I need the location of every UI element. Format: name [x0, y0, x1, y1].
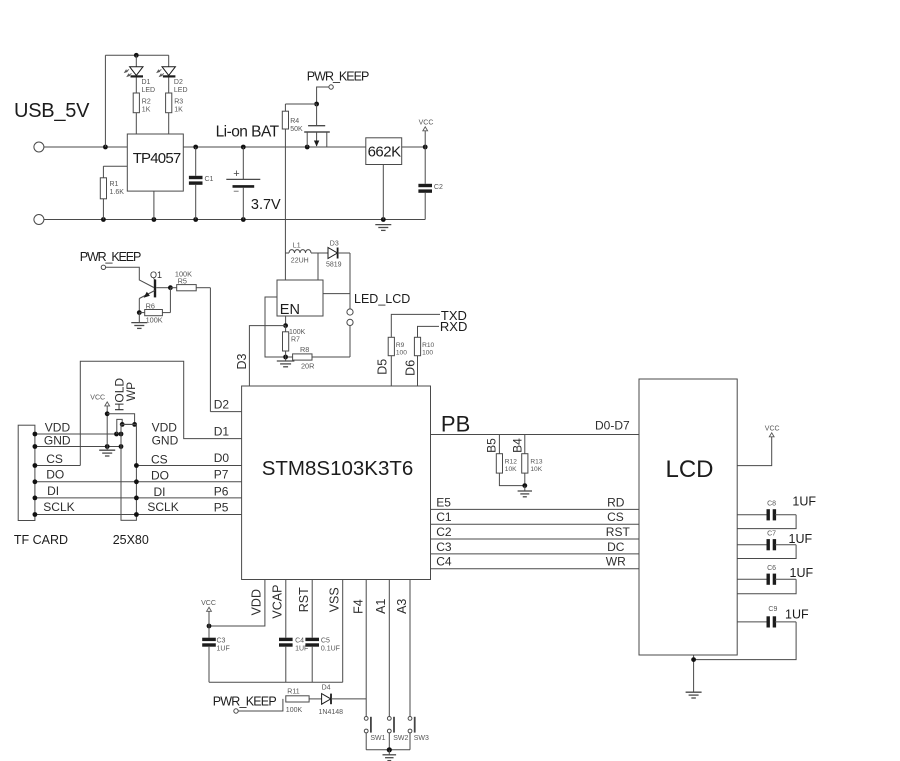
- power flag VCC (LCD): [737, 437, 772, 466]
- svg-text:RXD: RXD: [440, 319, 467, 334]
- svg-text:VCC: VCC: [419, 119, 434, 126]
- switch SW3: [408, 717, 412, 721]
- wire: [418, 326, 440, 337]
- svg-text:GND: GND: [44, 433, 71, 447]
- svg-text:10K: 10K: [505, 466, 517, 473]
- wire: [317, 253, 319, 280]
- wire WP-HOLD tie: [117, 419, 122, 434]
- svg-text:5819: 5819: [326, 262, 342, 269]
- node 25X80 CS: [134, 463, 139, 468]
- svg-text:R3: R3: [174, 99, 183, 106]
- svg-text:100: 100: [422, 350, 433, 357]
- wire: [417, 356, 419, 386]
- svg-text:PB: PB: [441, 412, 470, 437]
- svg-text:R5: R5: [178, 276, 187, 285]
- wire: [391, 314, 440, 337]
- resistor R12 10K: [498, 435, 500, 454]
- svg-text:R11: R11: [287, 689, 299, 696]
- capacitor C3 1UF: [208, 626, 210, 638]
- svg-text:D4: D4: [322, 684, 331, 691]
- svg-text:RD: RD: [607, 495, 625, 509]
- wire 662K GND pin: [382, 165, 384, 220]
- svg-text:100: 100: [396, 350, 407, 357]
- svg-text:TP4057: TP4057: [133, 150, 182, 167]
- wire A3 pin down to SW3: [409, 580, 411, 717]
- svg-text:D5: D5: [376, 359, 390, 375]
- svg-text:R10: R10: [422, 342, 434, 349]
- module LCD: [639, 379, 737, 655]
- svg-text:P5: P5: [214, 501, 229, 515]
- svg-text:D2: D2: [174, 79, 183, 86]
- capacitor C4 1UF: [279, 638, 293, 641]
- resistor R1 1.6K: [100, 178, 106, 199]
- wire: [402, 146, 426, 148]
- wire: [135, 113, 137, 134]
- svg-text:C3: C3: [217, 638, 226, 645]
- svg-text:662K: 662K: [368, 143, 402, 160]
- ground: [686, 691, 702, 693]
- svg-text:P7: P7: [214, 467, 229, 481]
- svg-text:1UF: 1UF: [790, 566, 814, 580]
- svg-text:SW3: SW3: [414, 735, 429, 742]
- IC U1 TP4057 charger: [127, 134, 183, 191]
- wire: [390, 356, 392, 386]
- terminal PWR_KEEP: [234, 709, 238, 713]
- svg-text:25X80: 25X80: [113, 533, 149, 547]
- wire EN bottom pin: [285, 316, 287, 326]
- svg-text:LED: LED: [142, 87, 156, 94]
- wire: [102, 199, 104, 220]
- switch SW1: [364, 717, 368, 721]
- connector J1 TF CARD: [18, 425, 35, 520]
- wire LCD gnd pin: [693, 655, 695, 692]
- wire VSS pin down: [342, 580, 344, 683]
- node 25X80 SCLK: [134, 512, 139, 517]
- wire: [44, 146, 127, 148]
- svg-text:WR: WR: [606, 555, 626, 569]
- resistor R4 50K: [284, 104, 286, 111]
- svg-text:3.7V: 3.7V: [251, 197, 281, 213]
- wire C3/DC row: [431, 553, 640, 555]
- wire VCAP pin down: [285, 580, 287, 638]
- wire boost vin into EN block: [284, 253, 286, 280]
- svg-text:C4: C4: [295, 638, 304, 645]
- terminal PWR_KEEP: [101, 265, 105, 269]
- wire: [103, 165, 127, 167]
- svg-text:50K: 50K: [290, 126, 303, 133]
- capacitor C6 1UF: [737, 578, 766, 580]
- svg-text:C8: C8: [767, 501, 776, 508]
- svg-text:CS: CS: [151, 452, 168, 466]
- svg-text:R2: R2: [142, 99, 151, 106]
- transistor Q2 PMOS switch: [316, 104, 318, 126]
- svg-text:1N4148: 1N4148: [319, 709, 344, 716]
- wire decoupling gnd rail: [209, 681, 343, 683]
- ground: [138, 313, 140, 323]
- svg-text:SW1: SW1: [370, 735, 385, 742]
- wire PB bus D0-D7: [431, 434, 640, 436]
- node SCLK: [33, 512, 38, 517]
- svg-text:10K: 10K: [530, 466, 542, 473]
- svg-text:R4: R4: [290, 118, 299, 125]
- capacitor C1: [195, 147, 197, 176]
- resistor R6 100K: [139, 312, 144, 314]
- svg-text:1UF: 1UF: [217, 646, 230, 653]
- svg-text:GND: GND: [152, 433, 179, 447]
- svg-text:100K: 100K: [289, 329, 306, 336]
- power flag VCC: [424, 131, 426, 147]
- node 25X80 DO: [134, 479, 139, 484]
- connector pin P1 (USB 5V): [34, 142, 44, 152]
- svg-text:D3: D3: [235, 353, 249, 369]
- diode D1 LED: [135, 55, 137, 66]
- ground: [524, 486, 526, 491]
- resistor R10 100: [414, 337, 420, 355]
- svg-text:B5: B5: [484, 438, 498, 453]
- svg-text:VCC: VCC: [90, 394, 105, 401]
- svg-text:RST: RST: [297, 587, 311, 612]
- svg-text:SCLK: SCLK: [147, 500, 178, 514]
- svg-text:1UF: 1UF: [785, 608, 809, 622]
- svg-text:1K: 1K: [142, 107, 151, 114]
- wire E5/RD row: [431, 508, 640, 510]
- wire: [349, 326, 351, 358]
- wire net D2 to MCU: [209, 288, 211, 412]
- svg-text:R9: R9: [396, 342, 405, 349]
- svg-text:−: −: [233, 187, 239, 198]
- wire C1/CS row: [431, 523, 640, 525]
- wire RST pin down: [311, 580, 313, 638]
- svg-text:VCAP: VCAP: [271, 585, 285, 619]
- svg-text:VDD: VDD: [250, 589, 264, 615]
- IC U5 25X80 flash: [121, 424, 136, 520]
- svg-text:A1: A1: [374, 599, 388, 614]
- svg-text:D1: D1: [214, 425, 230, 439]
- svg-text:RST: RST: [606, 525, 631, 539]
- wire CS row (TF): [35, 465, 80, 467]
- wire: [208, 611, 210, 626]
- svg-text:TF CARD: TF CARD: [14, 533, 68, 547]
- svg-text:WP: WP: [124, 382, 138, 401]
- wire: [238, 699, 283, 711]
- wire VDD row: [35, 433, 121, 435]
- IC U4 STM8S103K3T6 MCU: [242, 386, 431, 580]
- svg-text:SCLK: SCLK: [43, 500, 74, 514]
- wire P7 row: [35, 481, 242, 483]
- wire: [338, 252, 350, 254]
- diode D2 LED: [168, 55, 170, 66]
- ground: [277, 360, 295, 362]
- svg-text:D3: D3: [330, 240, 339, 247]
- connector LED_LCD pin2: [347, 319, 353, 325]
- wire switches to gnd rail: [365, 733, 367, 750]
- svg-text:DO: DO: [46, 468, 64, 482]
- svg-text:C1: C1: [205, 176, 214, 183]
- wire C4/WR row: [431, 568, 640, 570]
- svg-text:1K: 1K: [174, 107, 183, 114]
- capacitor C2: [424, 147, 426, 184]
- resistor R13 10K: [524, 435, 526, 454]
- wire D0 row: [136, 465, 241, 467]
- svg-text:R1: R1: [110, 181, 119, 188]
- wire net D3 to MCU: [249, 326, 285, 386]
- svg-text:STM8S103K3T6: STM8S103K3T6: [262, 457, 414, 480]
- svg-text:P6: P6: [214, 485, 229, 499]
- svg-text:C9: C9: [768, 606, 777, 613]
- svg-text:1UF: 1UF: [792, 495, 816, 509]
- wire BAT+ rail: [183, 146, 365, 148]
- wire EN left pin loop: [265, 297, 293, 357]
- wire: [331, 698, 366, 700]
- wire: [312, 356, 350, 358]
- svg-text:DO: DO: [151, 469, 169, 483]
- svg-text:C7: C7: [767, 531, 776, 538]
- svg-text:LED: LED: [174, 87, 188, 94]
- svg-text:B4: B4: [511, 438, 525, 453]
- svg-text:A3: A3: [395, 599, 409, 614]
- wire: [309, 698, 322, 700]
- resistor R3 1K: [166, 93, 172, 113]
- wire D1 net route from TF CS: [80, 361, 241, 465]
- terminal PWR_KEEP: [329, 85, 333, 89]
- svg-text:D0-D7: D0-D7: [595, 419, 630, 433]
- svg-text:C2: C2: [434, 184, 443, 191]
- wire: [317, 87, 329, 104]
- svg-text:C2: C2: [436, 525, 452, 539]
- svg-text:DI: DI: [154, 485, 166, 499]
- svg-text:R8: R8: [300, 345, 309, 354]
- svg-text:PWR_KEEP: PWR_KEEP: [213, 695, 277, 709]
- svg-text:VCC: VCC: [201, 600, 216, 607]
- connector pin P2 (USB GND): [34, 215, 44, 225]
- svg-text:1UF: 1UF: [789, 532, 813, 546]
- svg-text:PWR_KEEP: PWR_KEEP: [80, 250, 142, 264]
- svg-text:EN: EN: [280, 302, 300, 318]
- wire: [138, 299, 140, 313]
- ground: [375, 224, 391, 226]
- capacitor C9 1UF: [737, 621, 766, 623]
- wire: [106, 406, 108, 447]
- wire P5 row: [35, 514, 242, 516]
- svg-text:C6: C6: [767, 565, 776, 572]
- wire WP/HOLD pullup: [107, 414, 134, 425]
- svg-text:Q1: Q1: [150, 270, 162, 280]
- node DI: [33, 496, 38, 501]
- svg-text:D6: D6: [404, 360, 418, 376]
- svg-text:C5: C5: [321, 638, 330, 645]
- battery BT1 3.7V: [242, 147, 244, 179]
- svg-text:E5: E5: [436, 495, 451, 509]
- svg-text:R12: R12: [505, 458, 517, 465]
- IC U3 boost EN block: [277, 280, 323, 316]
- wire: [168, 113, 170, 134]
- power flag VCC (TF): [105, 402, 110, 406]
- wire VDD pin down: [209, 580, 265, 627]
- svg-text:R7: R7: [291, 337, 300, 344]
- capacitor C8 1UF: [737, 514, 766, 516]
- svg-text:PWR_KEEP: PWR_KEEP: [307, 70, 370, 84]
- svg-text:L1: L1: [293, 242, 301, 249]
- svg-text:CS: CS: [46, 452, 63, 466]
- connector LED_LCD pin1: [347, 309, 353, 315]
- svg-text:DC: DC: [607, 540, 625, 554]
- wire A1 pin down to SW2: [388, 580, 390, 717]
- svg-text:VSS: VSS: [328, 587, 342, 612]
- svg-text:100K: 100K: [286, 707, 303, 714]
- IC U2 662K regulator: [366, 138, 402, 165]
- svg-text:USB_5V: USB_5V: [14, 100, 90, 122]
- svg-text:100K: 100K: [146, 316, 163, 325]
- wire LED top rail: [105, 54, 168, 56]
- ground: [388, 750, 390, 755]
- wire P6 row: [35, 497, 242, 499]
- wire TP4057 GND pin: [153, 191, 155, 219]
- svg-text:D2: D2: [214, 398, 230, 412]
- node 25X80 DI: [134, 496, 139, 501]
- svg-text:VCC: VCC: [765, 425, 780, 432]
- wire GND row: [35, 446, 121, 448]
- wire bottom GND rail: [44, 219, 425, 221]
- svg-text:20R: 20R: [301, 362, 314, 371]
- wire EN right pin to LED_LCD: [323, 293, 350, 295]
- capacitor C5 0.1UF: [305, 638, 319, 641]
- svg-text:D0: D0: [214, 451, 230, 465]
- capacitor C7 1UF: [737, 544, 766, 546]
- svg-text:C1: C1: [436, 510, 452, 524]
- svg-text:+: +: [233, 168, 239, 180]
- power flag VCC (bottom): [207, 607, 212, 611]
- switch SW2: [387, 717, 391, 721]
- wire F4 pin down to SW1: [365, 580, 367, 717]
- svg-text:0.1UF: 0.1UF: [321, 646, 340, 653]
- wire: [104, 55, 106, 147]
- wire: [106, 267, 154, 287]
- resistor R9 100: [388, 337, 394, 355]
- svg-text:F4: F4: [351, 599, 365, 614]
- wire D2 row: [210, 411, 241, 413]
- svg-text:R6: R6: [146, 301, 155, 310]
- svg-text:LCD: LCD: [665, 456, 713, 483]
- wire D3 out down to LED_LCD pin1: [349, 253, 351, 309]
- wire Q1 collector: [156, 287, 170, 289]
- svg-text:D1: D1: [142, 79, 151, 86]
- svg-text:R13: R13: [530, 458, 542, 465]
- svg-text:SW2: SW2: [393, 735, 408, 742]
- svg-text:1.6K: 1.6K: [110, 189, 125, 196]
- resistor R2 1K: [133, 93, 139, 113]
- svg-text:CS: CS: [607, 510, 624, 524]
- svg-text:DI: DI: [47, 484, 59, 498]
- svg-text:Li-on BAT: Li-on BAT: [216, 124, 280, 141]
- svg-text:C4: C4: [436, 555, 452, 569]
- wire: [499, 473, 524, 486]
- ground: [99, 449, 115, 451]
- node DO: [33, 479, 38, 484]
- wire R4 bottom to L1: [284, 129, 286, 253]
- svg-text:22UH: 22UH: [291, 258, 309, 265]
- svg-text:C3: C3: [436, 540, 452, 554]
- svg-text:LED_LCD: LED_LCD: [354, 292, 410, 306]
- wire C2/RST row: [431, 538, 640, 540]
